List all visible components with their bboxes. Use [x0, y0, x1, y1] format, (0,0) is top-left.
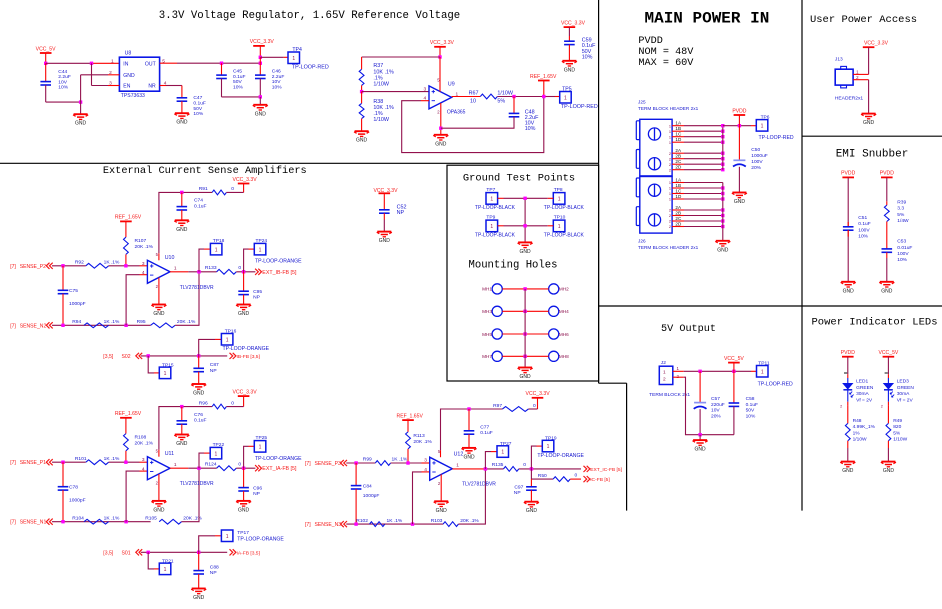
- svg-text:SENSE_N3: SENSE_N3: [315, 522, 342, 528]
- svg-text:R38: R38: [373, 99, 383, 105]
- svg-text:2D: 2D: [675, 165, 682, 170]
- node junction GND rail 5V: [698, 433, 701, 436]
- svg-text:.1%: .1%: [373, 111, 382, 117]
- capacitor C76: [177, 407, 207, 435]
- svg-text:NP: NP: [397, 210, 405, 216]
- svg-text:3.3: 3.3: [897, 206, 904, 212]
- svg-text:[7]: [7]: [10, 264, 16, 270]
- ground GND under J26 bus: [715, 241, 730, 254]
- node junction U12 output: [484, 467, 487, 470]
- svg-text:EXT_IC-FB [5]: EXT_IC-FB [5]: [590, 467, 622, 473]
- svg-text:TP4: TP4: [292, 47, 302, 53]
- resistor R133: [205, 265, 242, 274]
- svg-text:1K .1%: 1K .1%: [104, 260, 120, 266]
- svg-text:10K .1%: 10K .1%: [373, 69, 394, 75]
- wire to TP4: [260, 56, 288, 58]
- svg-text:TP-LOOP-ORANGE: TP-LOOP-ORANGE: [237, 536, 284, 542]
- svg-text:VCC_5V: VCC_5V: [724, 356, 744, 362]
- svg-text:GND: GND: [520, 249, 532, 255]
- resistor R102: [356, 518, 403, 527]
- svg-text:TP-LOOP-BLACK: TP-LOOP-BLACK: [475, 233, 516, 239]
- svg-text:TP5: TP5: [562, 86, 572, 92]
- svg-text:10V: 10V: [711, 408, 720, 414]
- svg-text:1000pF: 1000pF: [69, 498, 86, 504]
- svg-text:1/10W: 1/10W: [853, 437, 867, 443]
- title 3.3V Voltage Regulator: [159, 10, 460, 22]
- svg-text:TLV2781DBVR: TLV2781DBVR: [180, 481, 214, 487]
- svg-text:R96: R96: [199, 400, 208, 406]
- svg-text:TP-LOOP-BLACK: TP-LOOP-BLACK: [475, 205, 516, 211]
- node junction TP/C column: [242, 270, 245, 273]
- svg-text:[3,5]: [3,5]: [103, 550, 113, 556]
- wires J26 pins to GND bus: [669, 177, 725, 229]
- svg-text:PVDD: PVDD: [732, 108, 746, 114]
- node junction VCC_5V/C44/IN: [44, 62, 47, 65]
- node junction MH bus: [523, 287, 526, 290]
- resistor R39: [884, 199, 909, 249]
- svg-text:Mounting Holes: Mounting Holes: [468, 260, 557, 272]
- svg-text:SENSE_N1: SENSE_N1: [20, 520, 47, 526]
- svg-text:2.2uF: 2.2uF: [58, 74, 71, 80]
- svg-text:R92: R92: [75, 260, 84, 266]
- wire feedback to output: [182, 468, 200, 522]
- ground GND under C87: [191, 384, 206, 397]
- node junction C75 top: [61, 264, 64, 267]
- svg-text:3: 3: [142, 261, 145, 267]
- svg-text:1: 1: [164, 567, 167, 573]
- svg-text:GND: GND: [379, 238, 391, 244]
- svg-text:TP-LOOP-BLACK: TP-LOOP-BLACK: [544, 205, 585, 211]
- capacitor C46: [255, 63, 284, 97]
- svg-text:20%: 20%: [751, 165, 761, 171]
- node junction C84 top: [354, 461, 357, 464]
- svg-text:2: 2: [840, 405, 842, 409]
- svg-text:20%: 20%: [711, 414, 721, 420]
- svg-text:10%: 10%: [582, 54, 593, 60]
- svg-text:C58: C58: [746, 396, 755, 402]
- svg-text:TERM BLOCK 2x1: TERM BLOCK 2x1: [649, 392, 690, 398]
- svg-text:PVDD: PVDD: [638, 36, 662, 47]
- node junction VCC/R37: [438, 55, 441, 58]
- svg-text:2: 2: [669, 209, 671, 213]
- svg-text:10%: 10%: [272, 85, 282, 91]
- svg-text:4: 4: [142, 270, 145, 276]
- svg-text:1: 1: [669, 181, 671, 185]
- node junction TP15 tap: [147, 354, 150, 357]
- svg-text:VCC_3.3V: VCC_3.3V: [561, 20, 586, 26]
- svg-text:10%: 10%: [897, 257, 907, 263]
- svg-text:0.1uF: 0.1uF: [858, 221, 870, 227]
- svg-text:5V Output: 5V Output: [661, 324, 716, 335]
- svg-text:VCC_3.3V: VCC_3.3V: [430, 40, 455, 46]
- title MAIN POWER IN: [644, 10, 769, 28]
- capacitor C50 polarized: [733, 126, 768, 193]
- ground GND R49: [881, 462, 896, 475]
- capacitor C97: [514, 479, 537, 502]
- capacitor C52: [379, 204, 406, 231]
- svg-text:0.1uF: 0.1uF: [480, 430, 493, 436]
- power VCC_3.3V above U10: [233, 177, 258, 193]
- svg-text:1K .1%: 1K .1%: [392, 457, 408, 463]
- svg-text:MAIN POWER IN: MAIN POWER IN: [644, 10, 769, 28]
- svg-text:U9: U9: [448, 81, 455, 87]
- svg-text:4: 4: [142, 466, 145, 472]
- svg-text:10%: 10%: [858, 234, 868, 240]
- node junction R37/R38/pin3: [360, 90, 363, 93]
- svg-text:2: 2: [669, 225, 671, 229]
- svg-text:NP: NP: [210, 570, 217, 576]
- svg-text:2C: 2C: [675, 216, 682, 221]
- svg-text:C97: C97: [514, 485, 523, 491]
- svg-text:100V: 100V: [897, 251, 909, 257]
- node junction bottom rail: [259, 95, 262, 98]
- port SENSE_P3: [305, 460, 347, 467]
- testpoint TP15: [148, 356, 174, 379]
- svg-text:GND: GND: [695, 447, 707, 453]
- ground GND under C77: [461, 448, 476, 461]
- node junction output/TP: [197, 467, 200, 470]
- svg-text:R101: R101: [75, 456, 87, 462]
- node junction MH bus: [523, 355, 526, 358]
- title User Power Access: [810, 14, 917, 26]
- wire U10 output: [170, 271, 217, 273]
- svg-text:50V: 50V: [193, 106, 202, 112]
- ground GND under C51: [841, 282, 856, 295]
- svg-text:1/10W: 1/10W: [373, 117, 389, 123]
- power VCC_3.3V above U11: [233, 389, 258, 406]
- svg-text:220uF: 220uF: [711, 402, 725, 408]
- port S01: [103, 549, 142, 556]
- svg-text:GND: GND: [153, 507, 165, 513]
- wire U11 output: [170, 467, 217, 469]
- ground GND under R38: [354, 131, 369, 144]
- svg-text:C51: C51: [858, 215, 867, 221]
- wire GTP bus: [523, 197, 526, 243]
- svg-text:GND: GND: [176, 120, 188, 126]
- power VCC_3.3V above C59: [561, 20, 586, 41]
- svg-text:2: 2: [669, 157, 671, 161]
- svg-text:C57: C57: [711, 396, 720, 402]
- svg-text:C76: C76: [194, 412, 203, 418]
- svg-text:0.1uF: 0.1uF: [746, 402, 758, 408]
- svg-text:5%: 5%: [893, 430, 901, 436]
- LED LED1: [840, 373, 874, 409]
- svg-text:1: 1: [259, 444, 262, 450]
- svg-text:PVDD: PVDD: [841, 350, 855, 356]
- wire PVDD bus J25: [721, 124, 724, 170]
- svg-text:J26: J26: [638, 238, 646, 243]
- svg-text:10V: 10V: [272, 79, 281, 85]
- svg-text:TLV2781DBVR: TLV2781DBVR: [180, 285, 214, 291]
- svg-text:SENSE_N2: SENSE_N2: [20, 323, 47, 329]
- svg-text:[7]: [7]: [305, 461, 311, 467]
- svg-text:0: 0: [238, 462, 241, 468]
- resistor R104: [72, 515, 120, 524]
- svg-text:PVDD: PVDD: [841, 171, 855, 177]
- svg-text:10V: 10V: [58, 79, 67, 85]
- resistor R94: [72, 319, 120, 328]
- svg-text:2: 2: [669, 214, 671, 218]
- svg-text:0: 0: [523, 462, 526, 468]
- wire feedback to output: [175, 272, 199, 326]
- node junction C57: [698, 370, 701, 373]
- power PVDD snubber right: [880, 171, 894, 206]
- svg-text:IN: IN: [123, 61, 128, 67]
- node junction C87/TP16: [197, 354, 200, 357]
- svg-text:R105: R105: [145, 515, 157, 521]
- ground GND under C44: [73, 102, 88, 127]
- svg-text:0: 0: [575, 473, 578, 479]
- testpoint TP6: [756, 115, 794, 141]
- svg-text:MH5: MH5: [482, 332, 492, 337]
- node junction C75 bottom: [61, 324, 64, 327]
- svg-text:TP-LOOP-RED: TP-LOOP-RED: [561, 104, 598, 110]
- svg-text:0.1uF: 0.1uF: [194, 203, 207, 209]
- svg-text:1: 1: [215, 247, 218, 253]
- svg-text:EMI Snubber: EMI Snubber: [836, 149, 909, 161]
- power REF_1.65V above R113: [397, 413, 424, 432]
- node junction divider/pin3: [124, 264, 127, 267]
- svg-text:1: 1: [761, 123, 764, 129]
- svg-text:1: 1: [669, 198, 671, 202]
- wire U12 input P: [346, 462, 375, 464]
- svg-text:2C: 2C: [675, 159, 682, 164]
- svg-text:1: 1: [669, 130, 671, 134]
- svg-text:C77: C77: [480, 425, 489, 431]
- svg-text:NP: NP: [253, 491, 260, 497]
- svg-text:1/10W: 1/10W: [893, 437, 907, 443]
- svg-text:GND: GND: [123, 73, 135, 79]
- svg-text:10K .1%: 10K .1%: [373, 105, 394, 111]
- power PVDD LED branch: [841, 350, 855, 374]
- regulator U8 TPS73633: [109, 50, 167, 99]
- svg-text:1%: 1%: [853, 430, 861, 436]
- svg-text:VCC_5V: VCC_5V: [878, 350, 898, 356]
- wire U12 V- to GND: [440, 474, 442, 501]
- port SENSE_P1: [10, 459, 53, 466]
- svg-text:GREEN: GREEN: [856, 385, 874, 391]
- svg-text:1K .1%: 1K .1%: [104, 456, 120, 462]
- testpoint TP21: [148, 552, 174, 574]
- resistor R67: [469, 91, 514, 105]
- svg-text:0.1uF: 0.1uF: [233, 74, 246, 80]
- mounting hole MH1: [482, 284, 525, 294]
- svg-text:1K .1%: 1K .1%: [387, 518, 403, 524]
- svg-text:VCC_3.3V: VCC_3.3V: [526, 391, 551, 397]
- op-amp U9 OPA365: [424, 78, 466, 116]
- svg-text:GND: GND: [863, 120, 875, 126]
- svg-text:GND: GND: [75, 121, 87, 127]
- svg-text:TP22: TP22: [213, 442, 225, 448]
- node junction TP21 tap: [147, 551, 150, 554]
- wire R135 to port: [519, 468, 581, 470]
- svg-text:1: 1: [669, 187, 671, 191]
- svg-text:1: 1: [547, 444, 550, 450]
- svg-text:1: 1: [292, 56, 295, 62]
- ground GND R48: [840, 462, 855, 475]
- testpoint TP17: [199, 530, 285, 552]
- svg-text:1: 1: [174, 266, 177, 272]
- svg-text:1D: 1D: [675, 194, 682, 199]
- svg-text:R97: R97: [493, 403, 502, 409]
- connector J25 TERM BLOCK HEADER 2x1: [636, 99, 698, 176]
- wire GND bus J26: [722, 183, 724, 241]
- op-amp U11 TLV2781DBVR: [142, 449, 214, 488]
- svg-text:1000pF: 1000pF: [69, 301, 86, 307]
- svg-text:0.1uF: 0.1uF: [194, 418, 207, 424]
- title EMI Snubber: [836, 149, 909, 161]
- svg-text:2: 2: [881, 405, 883, 409]
- svg-text:2: 2: [669, 152, 671, 156]
- power REF_1.65V: [530, 74, 557, 97]
- svg-text:20K .1%: 20K .1%: [460, 518, 479, 524]
- svg-text:VCC_5V: VCC_5V: [36, 46, 56, 52]
- ground GND under C76: [174, 435, 189, 448]
- svg-text:1000uF: 1000uF: [751, 153, 767, 159]
- wire to pin3: [109, 461, 148, 463]
- wire J2 pin1 to TP11: [673, 366, 757, 379]
- wire to R50 row: [531, 469, 553, 479]
- port EXT_IC-FB: [584, 466, 623, 473]
- svg-text:MH6: MH6: [559, 332, 569, 337]
- port EXT_IA-FB: [255, 465, 297, 472]
- capacitor C59: [564, 38, 596, 61]
- power REF_1.65V above R108: [115, 411, 142, 434]
- svg-text:C78: C78: [69, 484, 78, 490]
- svg-text:Power Indicator LEDs: Power Indicator LEDs: [811, 317, 937, 329]
- svg-text:1: 1: [226, 337, 229, 343]
- svg-text:TP-LOOP-ORANGE: TP-LOOP-ORANGE: [537, 453, 584, 459]
- testpoint TP9: [475, 215, 525, 239]
- mounting hole MH3: [482, 306, 525, 316]
- svg-text:1C: 1C: [675, 132, 682, 137]
- wire J25 bus to TP6: [723, 125, 757, 127]
- svg-text:NOM = 48V: NOM = 48V: [638, 47, 694, 58]
- svg-text:TP11: TP11: [758, 360, 770, 366]
- svg-text:MH4: MH4: [559, 309, 569, 314]
- svg-text:GND: GND: [193, 595, 205, 601]
- node junction REF/feedback: [542, 95, 545, 98]
- svg-text:2A: 2A: [675, 205, 682, 210]
- node junction C48 top: [512, 95, 515, 98]
- capacitor C53: [882, 239, 913, 282]
- wire U8 NR to C47: [160, 86, 182, 98]
- capacitor C57 polarized: [694, 371, 725, 434]
- svg-text:C84: C84: [363, 483, 372, 489]
- svg-text:GND: GND: [435, 141, 447, 147]
- svg-text:1000pF: 1000pF: [363, 493, 380, 499]
- svg-text:C95: C95: [253, 289, 262, 295]
- svg-text:OPA365: OPA365: [447, 109, 466, 115]
- ground GND under C59: [562, 61, 577, 74]
- op-amp U12 TLV2781DBVR: [424, 449, 496, 488]
- svg-text:VCC_3.3V: VCC_3.3V: [373, 188, 398, 194]
- capacitor C78: [58, 462, 86, 522]
- wire U11 input N: [52, 521, 151, 523]
- svg-text:EXT_IA-FB [5]: EXT_IA-FB [5]: [262, 466, 297, 472]
- svg-text:1: 1: [669, 135, 671, 139]
- svg-text:1: 1: [663, 369, 666, 375]
- svg-text:R104: R104: [72, 515, 84, 521]
- svg-text:Vf = 2V: Vf = 2V: [897, 398, 914, 404]
- svg-text:2A: 2A: [675, 148, 682, 153]
- port SENSE_P2: [10, 263, 53, 270]
- svg-text:R94: R94: [72, 319, 81, 325]
- port IB-FB: [230, 353, 261, 360]
- svg-text:GND: GND: [176, 441, 188, 447]
- wire output to port: [236, 467, 255, 469]
- svg-text:20K .1%: 20K .1%: [177, 319, 196, 325]
- svg-text:MH8: MH8: [559, 354, 569, 359]
- svg-text:R113: R113: [413, 433, 425, 439]
- capacitor C48: [441, 97, 539, 133]
- wire U8 EN pin3: [92, 63, 120, 85]
- node junction C84 bottom: [354, 522, 357, 525]
- resistor R108: [124, 434, 154, 463]
- node junction GND rail: [79, 100, 82, 103]
- svg-text:1: 1: [259, 247, 262, 253]
- ground GND under C53: [879, 282, 894, 295]
- svg-text:2B: 2B: [675, 210, 681, 215]
- svg-text:IB-FB [3,5]: IB-FB [3,5]: [237, 354, 261, 360]
- svg-text:1: 1: [669, 141, 671, 145]
- port IA-FB: [230, 549, 261, 556]
- svg-text:1: 1: [215, 451, 218, 457]
- svg-text:VCC_3.3V: VCC_3.3V: [233, 389, 258, 395]
- resistor R99: [363, 457, 408, 466]
- wire R50 to port: [570, 478, 581, 480]
- power VCC_3.3V user: [863, 41, 889, 75]
- wire C44 bottom to GND rail: [46, 101, 81, 103]
- resistor R97: [493, 403, 537, 412]
- svg-text:R124: R124: [205, 462, 217, 468]
- svg-text:C47: C47: [193, 95, 202, 101]
- wire VCC rail to U12 V+: [441, 409, 503, 457]
- svg-text:GND: GND: [176, 227, 188, 233]
- svg-text:C46: C46: [272, 69, 281, 75]
- power VCC_3.3V above C46: [250, 39, 275, 57]
- wire U10 V- to GND: [158, 278, 160, 305]
- ground GND under C88: [191, 589, 206, 602]
- svg-text:4: 4: [424, 467, 427, 473]
- node junction divider/pin3: [124, 461, 127, 464]
- ground GND under C95: [236, 305, 251, 318]
- svg-text:J2: J2: [661, 360, 666, 366]
- connector J26 TERM BLOCK HEADER 2x1: [636, 177, 698, 251]
- svg-text:R95: R95: [137, 319, 146, 325]
- testpoint TP24: [244, 238, 303, 272]
- svg-text:1: 1: [761, 369, 764, 375]
- svg-text:C50: C50: [751, 147, 760, 153]
- svg-text:TP25: TP25: [256, 435, 268, 441]
- node junction R113/pin3: [406, 461, 409, 464]
- svg-text:0: 0: [231, 186, 234, 192]
- wire U11 V- to GND: [158, 474, 160, 501]
- text PVDD NOM MAX: [638, 36, 694, 69]
- capacitor C95: [238, 272, 262, 305]
- node junction output/TP: [197, 270, 200, 273]
- svg-text:10: 10: [470, 99, 476, 105]
- wire J13 pin1: [853, 69, 869, 74]
- testpoint TP8: [525, 187, 584, 211]
- wire C45/C46 bottom rail: [222, 96, 261, 98]
- svg-text:10%: 10%: [746, 414, 756, 420]
- title 5V Output: [661, 324, 716, 335]
- svg-text:R67: R67: [469, 91, 479, 97]
- svg-text:GND: GND: [842, 468, 854, 474]
- svg-text:1K .1%: 1K .1%: [104, 515, 120, 521]
- op-amp U10 TLV2781DBVR: [142, 252, 214, 291]
